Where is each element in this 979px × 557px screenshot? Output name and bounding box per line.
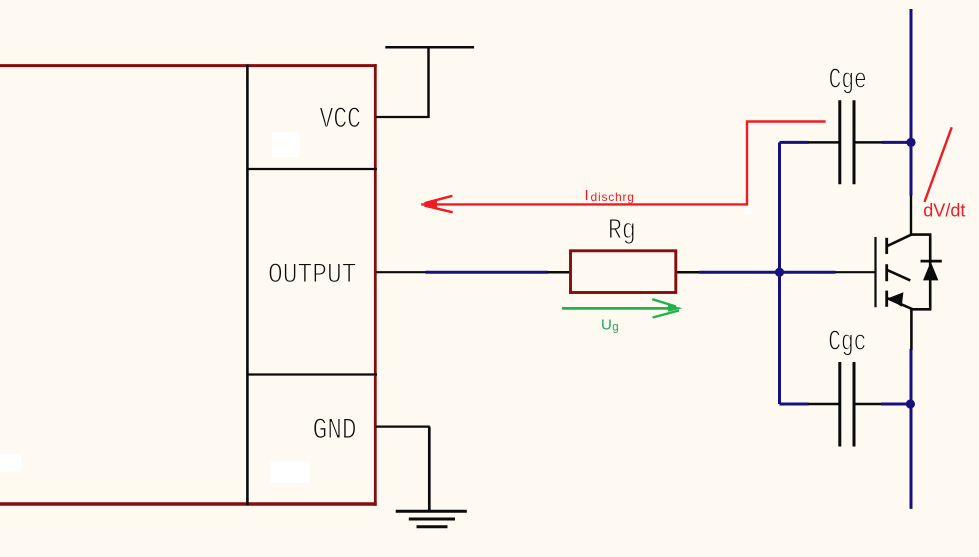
svg-text:Rg: Rg (608, 214, 636, 247)
svg-text:OUTPUT: OUTPUT (268, 260, 357, 291)
svg-text:dV/dt: dV/dt (923, 201, 965, 221)
svg-text:U: U (601, 317, 612, 334)
svg-text:GND: GND (313, 413, 357, 447)
svg-text:I: I (585, 187, 589, 204)
svg-text:Cgc: Cgc (828, 326, 866, 359)
svg-text:VCC: VCC (320, 103, 362, 137)
svg-text:g: g (612, 322, 618, 334)
svg-text:dischrg: dischrg (591, 190, 635, 204)
svg-text:Cge: Cge (829, 63, 867, 96)
